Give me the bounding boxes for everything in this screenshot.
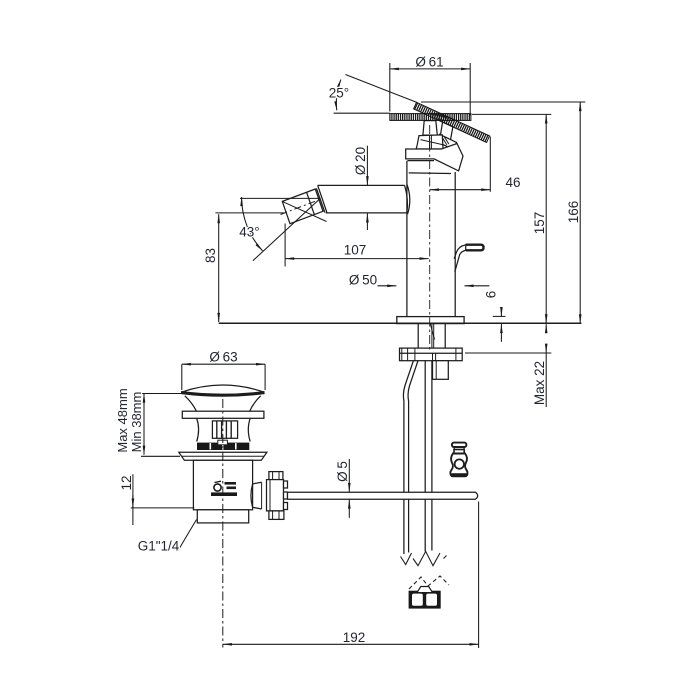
threaded shank below deck [418, 324, 445, 348]
mounting nut [433, 361, 449, 380]
svg-text:Ø 63: Ø 63 [209, 350, 237, 365]
dim 192 [223, 502, 479, 649]
dim Max22 [465, 324, 551, 407]
svg-text:Ø 61: Ø 61 [415, 55, 443, 70]
dim 12 [131, 474, 195, 525]
knurled coupling nut [267, 472, 288, 520]
valve stem tilted [439, 122, 453, 146]
escutcheon collar (horizontal + tilted) [406, 144, 463, 171]
dim Max48/Min38 [141, 394, 181, 457]
svg-text:Ø 50: Ø 50 [349, 272, 377, 287]
pipe break symbols [401, 551, 447, 565]
upper body (waisted) [197, 418, 251, 441]
small valve fitting [450, 443, 467, 477]
upper flange [182, 411, 264, 418]
svg-text:157: 157 [532, 212, 547, 235]
drain centerline [222, 399, 224, 648]
central pipe [425, 361, 432, 552]
valve stem vertical [423, 121, 437, 136]
dim O20 [366, 146, 368, 230]
svg-text:6: 6 [484, 291, 499, 299]
cap skirt [185, 396, 261, 411]
lower body [193, 460, 252, 523]
dim 107 [285, 224, 429, 267]
side port [251, 482, 262, 509]
svg-text:Max 22: Max 22 [532, 361, 547, 405]
dim 25deg [334, 75, 417, 114]
svg-text:Ø 20: Ø 20 [353, 147, 368, 175]
lever [454, 245, 483, 272]
dim O61 [390, 63, 470, 116]
dim O50 [378, 285, 490, 287]
leader G1 1/4 [178, 520, 197, 552]
svg-text:166: 166 [566, 201, 581, 224]
svg-text:Ø 5: Ø 5 [335, 461, 350, 482]
svg-text:192: 192 [343, 630, 366, 645]
aerator head [282, 185, 327, 223]
svg-text:Max 48mm: Max 48mm [115, 388, 130, 452]
handle wheel horizontal (knurled rim) [390, 114, 471, 121]
pop-up rod [288, 492, 478, 499]
spout tube [318, 184, 410, 214]
dim O5 [348, 459, 350, 518]
horseshoe washer [400, 348, 463, 361]
dim 46 [430, 137, 491, 192]
svg-text:43°: 43° [239, 225, 259, 240]
deck / mounting surface line [219, 322, 582, 324]
aerator axis centerline [281, 199, 321, 214]
svg-text:25°: 25° [329, 86, 349, 101]
supply hose (bent) [403, 361, 418, 554]
svg-text:83: 83 [203, 248, 218, 263]
dim 6 [493, 307, 506, 342]
svg-text:46: 46 [505, 175, 520, 190]
faucet body [407, 161, 455, 317]
svg-text:12: 12 [119, 475, 134, 490]
svg-text:Min 38mm: Min 38mm [129, 392, 144, 453]
pop-up cap dome [181, 385, 265, 395]
lower flange [179, 452, 267, 460]
bonnet cap tilted [437, 134, 456, 150]
handle wheel tilted 25deg (knurled rim) [414, 102, 490, 142]
svg-text:G1"1/4: G1"1/4 [138, 539, 180, 554]
hex nut (bottom) [409, 587, 441, 609]
faucet centerline [429, 125, 431, 352]
base plate [397, 317, 464, 324]
overflow window [212, 421, 237, 438]
dim 166 [421, 102, 585, 323]
bonnet cap [416, 135, 443, 149]
thread band (black) [197, 440, 249, 450]
logo stamp [211, 481, 237, 496]
dim 83 [215, 213, 284, 322]
dim 157 [472, 114, 551, 323]
svg-text:107: 107 [344, 243, 367, 258]
dim 43deg [240, 197, 320, 261]
dashed thread zigzag above hex nut [409, 576, 449, 589]
dim O63 [182, 364, 265, 390]
